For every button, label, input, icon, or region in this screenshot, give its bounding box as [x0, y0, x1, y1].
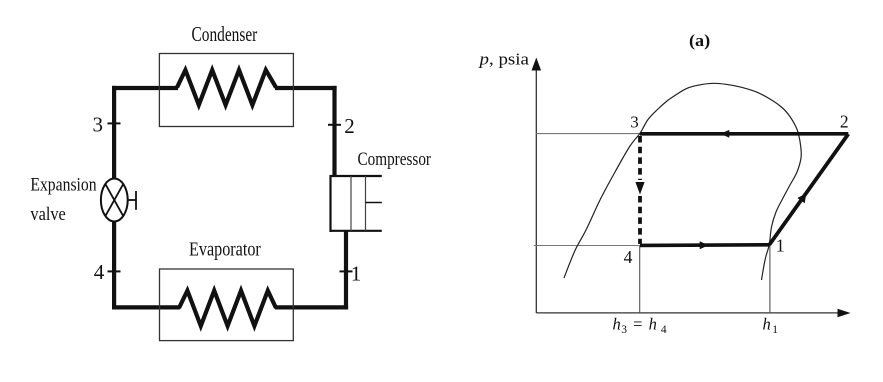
- upper pressure gridline: [536, 133, 640, 135]
- state 2 tick on wire: [328, 124, 341, 126]
- y axis: [535, 70, 537, 313]
- compressor cylinder bottom line: [331, 230, 382, 232]
- compressor piston line 2: [365, 176, 367, 231]
- svg-text:2: 2: [840, 112, 849, 132]
- svg-text:h3 = h4: h3 = h4: [613, 315, 667, 336]
- svg-text:Evaporator: Evaporator: [189, 239, 261, 261]
- dashed throttling line 3 to 4: [638, 136, 642, 180]
- x axis: [536, 312, 839, 314]
- vapor dome curve: [564, 83, 801, 280]
- vertical guide h1: [769, 244, 771, 313]
- wire bottom-right horizontal (evaporator to 1): [275, 305, 348, 309]
- wire top-right horizontal (condenser to 2): [275, 86, 337, 90]
- expansion valve ellipse body: [101, 179, 128, 222]
- vertical guide h3=h4: [639, 246, 641, 313]
- wire left vertical lower (valve down to 4): [112, 221, 116, 310]
- wire left vertical upper (3 down to valve): [112, 86, 116, 180]
- expansion valve stem tick: [135, 191, 137, 210]
- y axis arrowhead: [532, 58, 542, 71]
- evaporator zigzag coil: [179, 291, 276, 326]
- arrow on 4-1 line (pointing right): [700, 241, 709, 249]
- expansion valve stem: [128, 199, 136, 201]
- state 1 tick on wire: [340, 270, 353, 272]
- process line 4 to 1 (thick): [640, 243, 770, 247]
- compressor cylinder left wall: [329, 175, 331, 232]
- expansion valve X cross line 1: [105, 184, 123, 216]
- condenser zigzag coil: [177, 70, 276, 105]
- state 4 tick on wire: [108, 270, 121, 272]
- process line 2 to 3 (thick): [640, 132, 848, 136]
- state 3 tick on wire: [108, 122, 121, 124]
- condenser box: [159, 54, 293, 127]
- compressor piston line 1: [350, 176, 352, 231]
- svg-text:1: 1: [351, 262, 362, 286]
- arrow on dashed line (pointing down): [635, 182, 644, 195]
- wire top-left horizontal (3 to condenser): [112, 86, 178, 90]
- svg-text:p, psia: p, psia: [478, 50, 529, 69]
- svg-text:Expansion: Expansion: [30, 174, 97, 195]
- wire right vertical lower (compressor down to 1): [344, 231, 348, 310]
- svg-text:3: 3: [630, 113, 639, 132]
- arrow on 2-3 line (pointing left): [721, 130, 730, 138]
- svg-text:2: 2: [344, 114, 355, 138]
- svg-text:Condenser: Condenser: [192, 22, 258, 46]
- wire right vertical upper (2 down to compressor): [332, 86, 336, 176]
- svg-text:3: 3: [93, 113, 104, 137]
- svg-text:h1: h1: [763, 315, 779, 336]
- x axis arrowhead: [838, 309, 851, 317]
- svg-text:valve: valve: [30, 204, 65, 225]
- compressor piston rod: [366, 202, 382, 204]
- svg-text:Compressor: Compressor: [358, 149, 432, 170]
- expansion valve X cross line 2: [105, 184, 123, 216]
- lower pressure gridline: [534, 245, 640, 247]
- svg-text:(a): (a): [689, 31, 710, 50]
- process line 1 to 2 diagonal (thick): [769, 134, 848, 245]
- evaporator box: [160, 269, 294, 341]
- arrow on 1-2 diagonal (pointing up-right): [797, 193, 806, 203]
- compressor cylinder top line: [331, 175, 382, 177]
- svg-text:4: 4: [624, 247, 633, 267]
- svg-text:4: 4: [94, 260, 105, 284]
- wire bottom-left horizontal (4 to evaporator): [112, 305, 180, 309]
- svg-text:1: 1: [776, 236, 785, 256]
